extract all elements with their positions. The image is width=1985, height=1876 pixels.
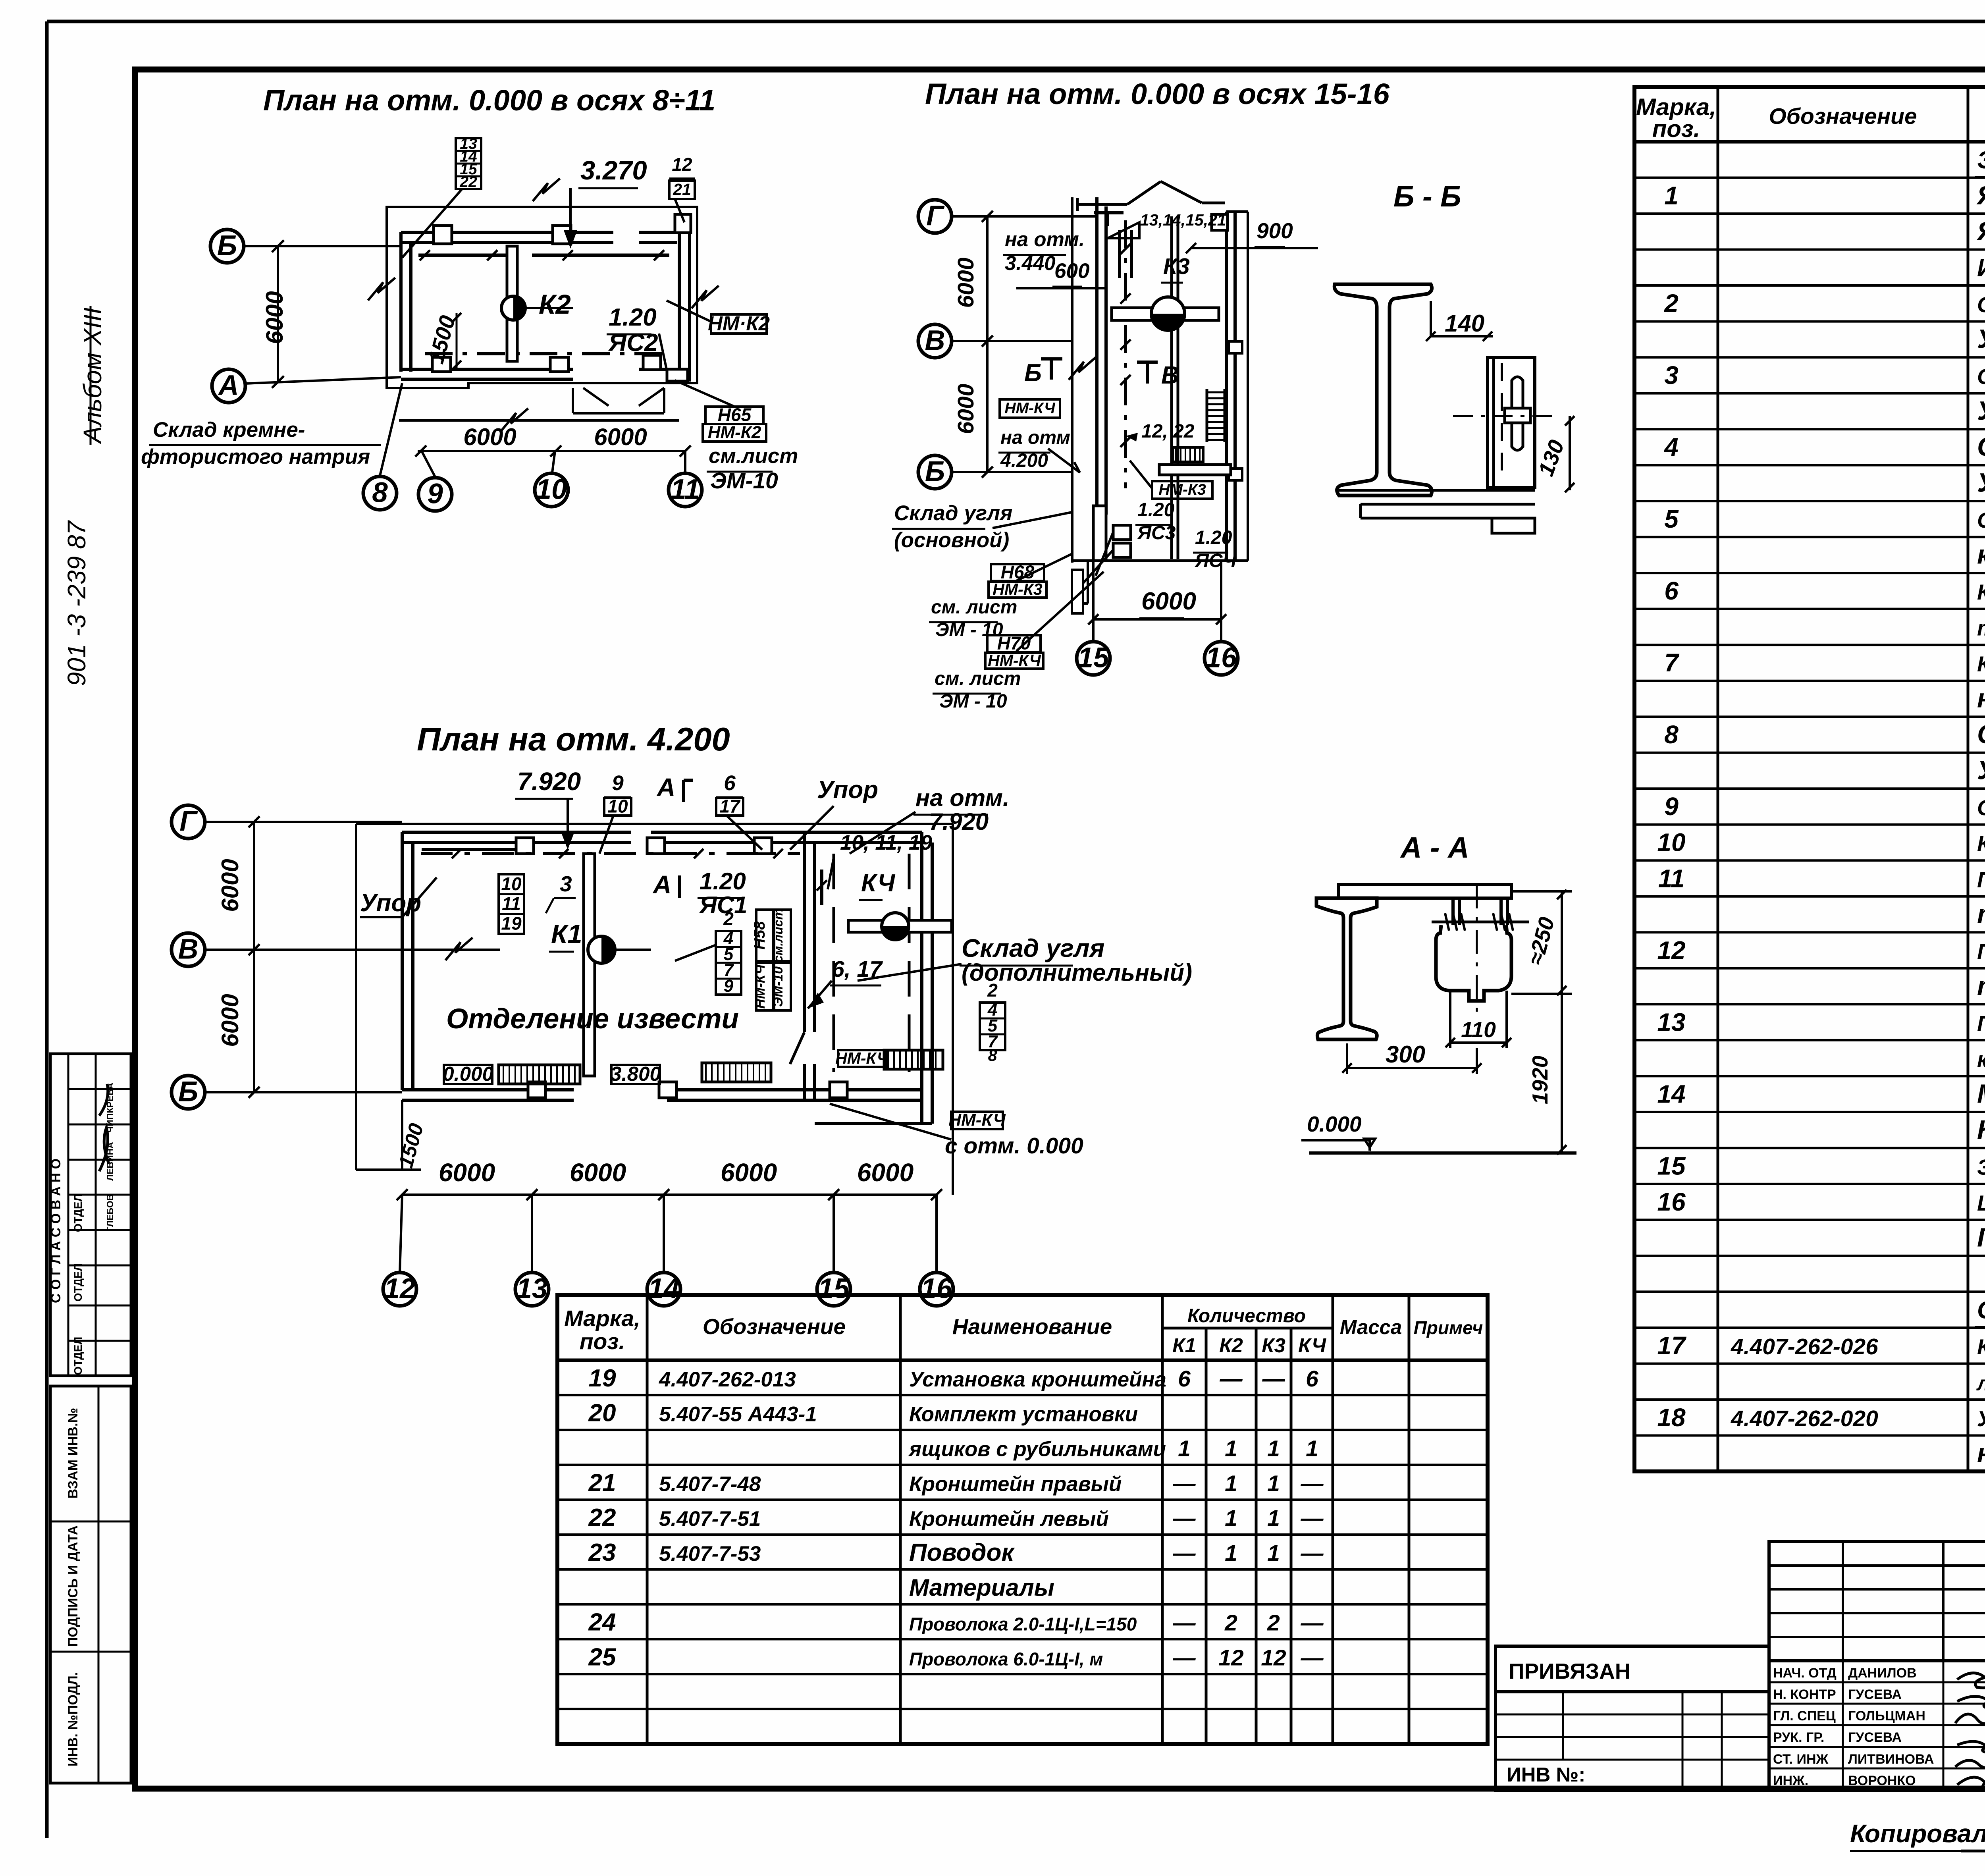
title block signatures <box>1955 1673 1985 1789</box>
svg-text:типа ПСК 10-20: типа ПСК 10-20 <box>1977 971 1985 1001</box>
svg-text:—: — <box>1173 1471 1196 1496</box>
plan2 box N70 NM-K4 <box>987 635 1041 652</box>
plan3 stairs hatch 3 <box>884 1050 943 1069</box>
svg-text:16: 16 <box>1657 1188 1686 1216</box>
plan3 crane K4 symbol <box>882 913 909 940</box>
plan1 axis circle A <box>212 369 245 403</box>
svg-text:2: 2 <box>1224 1610 1237 1636</box>
plan3 top columns <box>516 838 534 854</box>
section BB dim 130 <box>1569 416 1571 490</box>
svg-text:НМ-К3: НМ-К3 <box>992 580 1043 598</box>
plan2 box N68 NM-K3 <box>991 564 1044 581</box>
svg-text:НМ-КЧ: НМ-КЧ <box>753 964 768 1009</box>
svg-text:1920: 1920 <box>1528 1055 1552 1104</box>
svg-text:Склад угля: Склад угля <box>894 501 1012 525</box>
plan2 lower outline <box>1087 561 1089 603</box>
plan1 axis circle B <box>210 229 244 263</box>
svg-text:Наименование: Наименование <box>952 1314 1112 1339</box>
svg-text:1: 1 <box>1306 1436 1318 1461</box>
svg-text:901 -3 -239 87: 901 -3 -239 87 <box>62 520 91 686</box>
svg-text:10: 10 <box>607 796 628 816</box>
svg-text:Проволока 2.0-1Ц-I,L=150: Проволока 2.0-1Ц-I,L=150 <box>909 1614 1137 1635</box>
svg-text:4.407-262-026: 4.407-262-026 <box>1731 1334 1878 1359</box>
plan3 busbar top line <box>421 852 800 855</box>
plan1 equipment box YaS2 <box>643 355 661 370</box>
plan2 bottom edge <box>1072 559 1248 562</box>
svg-text:13: 13 <box>1657 1008 1685 1036</box>
svg-text:—: — <box>1220 1366 1243 1392</box>
svg-text:А: А <box>652 870 671 899</box>
plan2 section mark V <box>1146 362 1149 384</box>
svg-text:Каретка токосъем-: Каретка токосъем- <box>1977 652 1985 676</box>
svg-text:1: 1 <box>1267 1541 1280 1566</box>
plan3 axis leaders bottom <box>400 1195 402 1273</box>
svg-text:4.200: 4.200 <box>1000 450 1048 471</box>
svg-text:—: — <box>1173 1541 1196 1566</box>
svg-text:24: 24 <box>588 1609 616 1636</box>
svg-text:—: — <box>1262 1366 1285 1392</box>
svg-text:12, 22: 12, 22 <box>1141 421 1195 442</box>
svg-text:ЭМ-10: ЭМ-10 <box>771 966 786 1007</box>
svg-text:ЯВП3 - 15У2: ЯВП3 - 15У2 <box>1976 216 1985 246</box>
svg-text:Склад угля: Склад угля <box>962 934 1104 962</box>
svg-text:Проволока 6.0-1Ц-I, м: Проволока 6.0-1Ц-I, м <box>909 1648 1103 1669</box>
svg-text:Упор: Упор <box>817 776 878 804</box>
svg-text:Обозначение: Обозначение <box>703 1314 846 1339</box>
svg-text:1: 1 <box>1664 181 1679 210</box>
svg-text:22: 22 <box>588 1504 616 1531</box>
plan2 ladder <box>1206 389 1208 442</box>
svg-text:А - А: А - А <box>1400 831 1469 864</box>
svg-text:К2: К2 <box>539 289 571 320</box>
plan2 vertical dim lines 6000x2 <box>986 216 989 472</box>
svg-text:поз.: поз. <box>1652 116 1700 142</box>
svg-text:ЭМ - 10: ЭМ - 10 <box>939 691 1007 712</box>
svg-text:1.20: 1.20 <box>700 868 746 895</box>
svg-text:—: — <box>1173 1506 1196 1531</box>
svg-text:Муфта натяжения: Муфта натяжения <box>1977 1079 1985 1109</box>
svg-text:Примеч: Примеч <box>1414 1317 1483 1338</box>
svg-text:ПОДПИСЬ И ДАТА: ПОДПИСЬ И ДАТА <box>66 1525 81 1647</box>
svg-text:НМ-КЧ: НМ-КЧ <box>988 651 1041 669</box>
svg-text:Зажим тросовый К676: Зажим тросовый К676 <box>1977 1155 1985 1179</box>
svg-text:План на отм. 0.000 в осях 15-1: План на отм. 0.000 в осях 15-16 <box>925 77 1390 110</box>
svg-text:16: 16 <box>1206 642 1237 673</box>
section AA dim 250 <box>1511 890 1572 893</box>
svg-text:Б: Б <box>217 230 237 261</box>
section AA dim 110 <box>1449 991 1451 1048</box>
svg-text:5.407-7-53: 5.407-7-53 <box>659 1542 761 1566</box>
plan3 box NM-K4 small <box>838 1050 886 1067</box>
plan1 axis circle 9 <box>418 478 452 511</box>
svg-text:Материалы: Материалы <box>909 1574 1054 1601</box>
plan1 top wall <box>401 231 613 234</box>
svg-text:К1: К1 <box>1172 1334 1196 1357</box>
svg-text:ВОРОНКО: ВОРОНКО <box>1848 1773 1916 1788</box>
svg-text:План на отм. 0.000 в осях 8÷1: План на отм. 0.000 в осях 8÷11 <box>263 84 715 117</box>
plan2 yaschik boxes <box>1113 525 1131 540</box>
plan3 crane K1 symbol <box>588 936 615 963</box>
svg-text:ОТДЕЛ: ОТДЕЛ <box>72 1263 84 1301</box>
svg-text:РУК. ГР.: РУК. ГР. <box>1773 1730 1824 1745</box>
title block upper grid <box>1769 1542 1985 1661</box>
plan2 lower wall stub <box>1093 506 1106 561</box>
svg-text:18: 18 <box>1657 1403 1686 1432</box>
svg-text:12: 12 <box>384 1273 416 1304</box>
svg-text:6000: 6000 <box>570 1158 626 1187</box>
plan3 slab outline <box>356 823 953 825</box>
svg-text:У2606: У2606 <box>1977 468 1985 498</box>
svg-text:ящиков с рубильниками: ящиков с рубильниками <box>908 1438 1166 1461</box>
plan2 axis circle 16 <box>1204 642 1238 675</box>
plan3 top wall <box>402 831 631 834</box>
plan2 busbar solid segment <box>1118 230 1121 278</box>
svg-text:3.440: 3.440 <box>1005 252 1056 274</box>
svg-text:2: 2 <box>723 908 734 929</box>
plan3 crane K1 runway bar <box>584 854 595 1076</box>
svg-text:ОТДЕЛ: ОТДЕЛ <box>72 1337 84 1375</box>
svg-text:на отм.: на отм. <box>915 785 1010 811</box>
svg-text:6: 6 <box>1306 1366 1318 1392</box>
svg-text:Электрооборудование: Электрооборудование <box>1977 147 1985 174</box>
svg-text:11: 11 <box>1658 864 1684 893</box>
svg-text:Секция прямая 3000мм: Секция прямая 3000мм <box>1977 364 1985 389</box>
sheet outer trim line <box>47 20 1985 23</box>
plan3 bottom columns <box>528 1082 545 1098</box>
svg-text:Конструкция для прок-: Конструкция для прок- <box>1977 1334 1985 1359</box>
svg-text:каретки У2607У3: каретки У2607У3 <box>1977 540 1985 570</box>
svg-text:14: 14 <box>1657 1080 1685 1108</box>
svg-text:С О Г Л А С О В А Н О: С О Г Л А С О В А Н О <box>48 1159 64 1303</box>
plan3 axis circle V <box>172 933 205 966</box>
svg-text:Секция прямая 750мм: Секция прямая 750мм <box>1977 292 1985 317</box>
svg-text:У2321 У3: У2321 У3 <box>1977 756 1985 785</box>
section AA dim 300 <box>1346 1043 1348 1074</box>
svg-text:12: 12 <box>1657 936 1685 964</box>
plan2 right top column <box>1212 214 1228 230</box>
svg-text:ОТДЕЛ: ОТДЕЛ <box>72 1194 84 1232</box>
plan3 partition wall <box>803 832 806 1032</box>
section AA trolley profile <box>1436 925 1511 1001</box>
svg-text:1.20: 1.20 <box>609 304 657 331</box>
plan3 stairs hatch 2 <box>702 1063 771 1082</box>
plan1 leader from ref boxes <box>402 189 462 258</box>
svg-text:8: 8 <box>1664 720 1679 749</box>
plan2 right wall <box>1225 212 1228 561</box>
parts table right <box>1634 87 1985 1471</box>
svg-text:15: 15 <box>818 1273 850 1304</box>
svg-text:Копировал: Боброва: Копировал: Боброва <box>1850 1819 1985 1848</box>
plan1 label box NM-K2 <box>711 314 767 334</box>
svg-text:В: В <box>1161 362 1179 389</box>
svg-text:6000: 6000 <box>953 384 979 434</box>
svg-text:ИНВ. №ПОДЛ.: ИНВ. №ПОДЛ. <box>66 1672 81 1766</box>
svg-text:ЯС3: ЯС3 <box>1137 523 1176 544</box>
plan2 slab outer left line <box>1071 197 1073 563</box>
plan2 left wall <box>1095 197 1098 515</box>
svg-text:4.407-262-013: 4.407-262-013 <box>659 1368 796 1391</box>
svg-text:9: 9 <box>724 976 734 996</box>
svg-text:Б: Б <box>1024 359 1042 387</box>
svg-text:План на отм. 4.200: План на отм. 4.200 <box>417 721 730 758</box>
svg-text:(основной): (основной) <box>894 528 1009 552</box>
svg-text:В: В <box>925 325 945 356</box>
svg-text:ная У2328 У3: ная У2328 У3 <box>1977 684 1985 713</box>
svg-text:Изделия заводов ГЭМ: Изделия заводов ГЭМ <box>1977 255 1985 282</box>
svg-text:К3: К3 <box>1262 1334 1285 1357</box>
plan2 busbar centerline vertical <box>1124 220 1127 488</box>
svg-text:Подвеска промежу-: Подвеска промежу- <box>1977 867 1985 892</box>
section BB dim 140 <box>1430 301 1432 336</box>
svg-text:6: 6 <box>724 771 736 795</box>
archive stamp table (inv no / podpis) <box>50 1386 131 1783</box>
svg-text:ГЛ. СПЕЦ: ГЛ. СПЕЦ <box>1773 1708 1836 1724</box>
plan3 bottom dim line <box>402 1193 937 1196</box>
svg-text:0.000: 0.000 <box>1307 1112 1362 1136</box>
svg-text:ЯС2: ЯС2 <box>608 329 658 357</box>
svg-text:17: 17 <box>719 796 741 816</box>
svg-text:0.000: 0.000 <box>443 1062 493 1085</box>
svg-text:ДАНИЛОВ: ДАНИЛОВ <box>1848 1666 1917 1681</box>
plan1 axis circle 11 <box>669 473 702 507</box>
svg-text:—: — <box>1301 1471 1324 1496</box>
svg-text:—: — <box>1301 1541 1324 1566</box>
plan2 crane rail lines <box>1170 216 1173 559</box>
svg-text:13,14,15,21: 13,14,15,21 <box>1140 211 1226 229</box>
plan1 column marks <box>434 226 452 244</box>
plan2 box NM-K4 <box>1000 399 1060 418</box>
svg-text:23: 23 <box>588 1539 616 1566</box>
svg-text:1.20: 1.20 <box>1137 499 1175 521</box>
svg-text:В: В <box>178 933 198 965</box>
svg-text:2: 2 <box>1267 1610 1280 1636</box>
svg-text:4: 4 <box>1663 433 1679 461</box>
svg-text:1: 1 <box>1267 1436 1280 1461</box>
svg-text:6000: 6000 <box>261 291 288 344</box>
plan1 pit ramp below <box>583 388 609 406</box>
svg-text:6000: 6000 <box>953 257 979 308</box>
plan3 bottom wall <box>402 1088 574 1091</box>
svg-text:ИНВ №:: ИНВ №: <box>1507 1763 1585 1786</box>
svg-text:Н. КОНТР: Н. КОНТР <box>1773 1687 1836 1702</box>
section AA ground line <box>1309 1151 1576 1155</box>
svg-text:ГУСЕВА: ГУСЕВА <box>1848 1687 1902 1702</box>
section AA top plate <box>1339 885 1511 898</box>
svg-text:Н65: Н65 <box>718 404 752 425</box>
svg-text:11: 11 <box>671 474 700 505</box>
svg-text:—: — <box>1173 1645 1196 1670</box>
svg-text:6000: 6000 <box>721 1158 777 1187</box>
svg-text:9: 9 <box>427 478 443 509</box>
svg-text:Подвес концевого: Подвес концевого <box>1977 1011 1985 1035</box>
svg-text:Альбом XIII: Альбом XIII <box>78 307 107 445</box>
plan3 level 0.000 box <box>444 1065 492 1084</box>
svg-text:7.920: 7.920 <box>517 767 581 796</box>
svg-text:10: 10 <box>536 474 567 505</box>
svg-text:поз.: поз. <box>580 1329 625 1354</box>
svg-text:900: 900 <box>1257 218 1293 243</box>
svg-text:1: 1 <box>1225 1471 1237 1496</box>
plan1 bottom dim line lower <box>418 450 685 452</box>
svg-text:600: 600 <box>1054 259 1089 283</box>
plan2 crane beam bottom <box>1159 465 1231 475</box>
svg-text:1: 1 <box>1267 1506 1280 1531</box>
plan2 axis circle B <box>918 455 952 489</box>
plan3 stairs hatch 1 <box>499 1065 580 1084</box>
svg-text:19: 19 <box>501 913 522 933</box>
title block left lower grid <box>1495 1692 1769 1790</box>
svg-text:Г: Г <box>179 806 198 837</box>
section AA bolt hatch marks <box>1432 921 1481 924</box>
svg-text:Цепь СНБ №19, L=265: Цепь СНБ №19, L=265 <box>1977 1191 1985 1215</box>
svg-text:Светофор У2629 У3: Светофор У2629 У3 <box>1977 795 1985 820</box>
svg-text:крепления ПКК10÷20: крепления ПКК10÷20 <box>1977 1047 1985 1072</box>
svg-text:КЧ: КЧ <box>861 870 895 897</box>
plan2 box NM-K3 <box>1152 481 1212 499</box>
svg-text:2: 2 <box>987 980 998 1001</box>
svg-text:—: — <box>1173 1610 1196 1636</box>
svg-text:Кронштейн правый: Кронштейн правый <box>909 1472 1122 1496</box>
plan1 trolley busbar line <box>418 254 516 257</box>
svg-text:см. лист: см. лист <box>935 668 1021 689</box>
svg-text:—: — <box>1301 1610 1324 1636</box>
svg-text:1: 1 <box>1225 1506 1237 1531</box>
svg-text:140: 140 <box>1445 310 1484 337</box>
svg-text:1: 1 <box>1225 1541 1237 1566</box>
svg-text:—: — <box>1301 1645 1324 1670</box>
svg-text:300: 300 <box>1386 1041 1425 1068</box>
svg-text:Масса: Масса <box>1340 1316 1402 1338</box>
svg-text:7: 7 <box>1664 648 1680 677</box>
svg-text:Скоба ведущая: Скоба ведущая <box>1977 719 1985 749</box>
svg-text:ладки проводов и кабелей: ладки проводов и кабелей <box>1976 1372 1985 1394</box>
plan1 crane runway bar <box>507 246 517 361</box>
svg-text:НМ-КЧ: НМ-КЧ <box>835 1049 889 1067</box>
svg-text:точная К780 У3: точная К780 У3 <box>1977 899 1985 929</box>
svg-text:Установка кронштейна: Установка кронштейна <box>909 1368 1166 1391</box>
svg-text:А: А <box>656 773 675 802</box>
svg-text:Б - Б: Б - Б <box>1393 180 1461 213</box>
svg-text:К3: К3 <box>1163 254 1190 279</box>
svg-text:1: 1 <box>1178 1436 1191 1461</box>
svg-text:4.407-262-020: 4.407-262-020 <box>1731 1406 1878 1431</box>
svg-text:3.800: 3.800 <box>610 1062 661 1085</box>
svg-text:21: 21 <box>588 1469 616 1496</box>
svg-text:Склад кремне-: Склад кремне- <box>153 418 305 442</box>
plan3 axis circle B <box>172 1076 205 1109</box>
svg-text:ГОСТ 2319-81: ГОСТ 2319-81 <box>1977 1222 1985 1252</box>
svg-text:с отм. 0.000: с отм. 0.000 <box>945 1133 1083 1159</box>
svg-text:см.лист: см.лист <box>771 908 785 962</box>
svg-text:НМ·К2: НМ·К2 <box>708 312 770 335</box>
plan1 break marks <box>368 278 395 301</box>
svg-text:на отм: на отм <box>1000 427 1070 448</box>
svg-text:Отделение извести: Отделение извести <box>446 1003 739 1035</box>
approval stamp table (soglasovano) <box>50 1054 131 1376</box>
svg-text:Установка светофора: Установка светофора <box>1977 1406 1985 1431</box>
plan3 axis circle 13 <box>515 1273 549 1306</box>
plan2 axis circle V <box>918 324 952 358</box>
plan1 vertical dim 6000 <box>277 246 279 382</box>
svg-text:12: 12 <box>1218 1645 1244 1670</box>
svg-text:ИНЖ.: ИНЖ. <box>1773 1773 1808 1788</box>
plan3 K4 zone dashed lines <box>833 854 835 1072</box>
svg-text:3: 3 <box>560 871 572 896</box>
plan3 axis circle 16 <box>920 1273 953 1306</box>
svg-text:Г: Г <box>926 200 945 231</box>
svg-text:5.407-7-51: 5.407-7-51 <box>659 1507 761 1531</box>
svg-text:110: 110 <box>1461 1017 1496 1042</box>
plan3 ref boxes 10 11 19 stack <box>499 874 524 914</box>
plan3 right wall <box>920 832 923 1124</box>
svg-text:Кронштейн левый: Кронштейн левый <box>909 1507 1109 1531</box>
section AA centerline <box>1476 885 1478 1016</box>
svg-text:ЭМ - 10: ЭМ - 10 <box>935 619 1003 640</box>
svg-text:19: 19 <box>589 1365 616 1392</box>
svg-text:6000: 6000 <box>217 859 243 912</box>
svg-text:Марка,: Марка, <box>564 1306 640 1331</box>
section BB bottom plates <box>1339 489 1535 492</box>
svg-text:12: 12 <box>672 154 692 175</box>
svg-text:НАЧ. ОТД: НАЧ. ОТД <box>1773 1666 1837 1681</box>
section BB bolt <box>1512 377 1523 408</box>
plan3 left wall <box>401 832 404 1090</box>
plan1 bottom dim line upper <box>399 419 679 422</box>
svg-text:6000: 6000 <box>1141 588 1196 615</box>
svg-text:К1: К1 <box>551 919 582 949</box>
plan1 crane K2 symbol <box>501 296 525 320</box>
svg-text:5.407-7-48: 5.407-7-48 <box>659 1472 761 1496</box>
plan1 slab outline <box>387 207 697 388</box>
svg-text:Секция для ввода: Секция для ввода <box>1977 508 1985 532</box>
svg-text:Поводок: Поводок <box>909 1539 1015 1566</box>
section BB I-beam <box>1334 284 1432 496</box>
plan2 axis circle 15 <box>1077 642 1110 675</box>
plan1 right wall <box>678 222 681 382</box>
svg-text:К804: К804 <box>1977 1115 1985 1145</box>
svg-text:6000: 6000 <box>439 1158 495 1187</box>
plan3 axis circle G <box>172 805 205 839</box>
svg-text:10: 10 <box>501 873 522 894</box>
svg-text:ГОЛЬЦМАН: ГОЛЬЦМАН <box>1848 1708 1925 1724</box>
svg-text:8: 8 <box>988 1046 997 1064</box>
svg-text:ЯСЧ: ЯСЧ <box>1194 550 1237 571</box>
plan1 label N65 NM-K2 <box>705 407 763 424</box>
svg-text:12: 12 <box>1261 1645 1286 1670</box>
title block privyazan box <box>1495 1646 1769 1692</box>
svg-text:Клеммы присоедини-: Клеммы присоедини- <box>1977 580 1985 604</box>
svg-text:21: 21 <box>673 180 691 199</box>
svg-text:Обозначение: Обозначение <box>1769 104 1917 129</box>
svg-text:13: 13 <box>516 1273 548 1304</box>
plan2 crane K3 bar <box>1112 308 1219 320</box>
plan3 axis circle 15 <box>817 1273 850 1306</box>
plan3 door arc <box>790 1032 804 1064</box>
svg-text:9: 9 <box>612 771 624 795</box>
svg-text:9: 9 <box>1664 792 1679 821</box>
svg-text:15: 15 <box>1078 642 1110 673</box>
svg-text:1: 1 <box>1225 1436 1237 1461</box>
svg-text:Б: Б <box>925 456 945 487</box>
svg-text:5: 5 <box>1664 505 1679 533</box>
svg-text:6000: 6000 <box>463 424 516 450</box>
svg-text:15: 15 <box>1657 1151 1686 1180</box>
svg-text:тельные У2623 У3: тельные У2623 У3 <box>1977 616 1985 640</box>
plan3 vert busbar K4 tick <box>820 870 823 905</box>
svg-text:6000: 6000 <box>594 424 647 450</box>
section AA dim 1920 <box>1561 994 1563 1153</box>
svg-text:НМ-КЧ: НМ-КЧ <box>948 1111 1006 1130</box>
